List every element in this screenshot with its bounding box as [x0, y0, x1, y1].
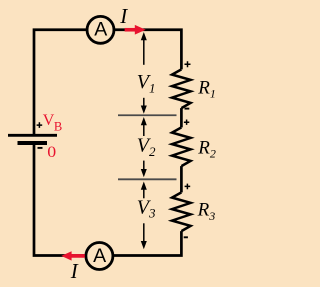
svg-text:A: A	[93, 245, 106, 267]
current arrow I bottom (red, pointing left)	[61, 251, 85, 260]
resistor R1 zigzag	[172, 69, 191, 108]
wire between R2 and R3	[180, 166, 183, 192]
svg-text:I: I	[119, 4, 128, 28]
V2 measurement arrow up	[141, 117, 147, 136]
resistor R3 zigzag	[172, 192, 191, 231]
wire left-bottom: from battery bottom plate down, across bottom to right corner, up to R3	[34, 143, 181, 256]
battery + sign	[37, 122, 43, 128]
wire left+top: from battery top plate up, across to top-right corner	[34, 30, 181, 135]
R3 + sign	[185, 184, 191, 190]
resistor R2 zigzag	[172, 127, 191, 166]
R1 - sign	[185, 108, 190, 110]
ammeter A top	[87, 16, 114, 43]
R3 - sign	[184, 236, 188, 238]
battery VB bottom plate (negative, short thick)	[18, 141, 48, 145]
V1 measurement arrow down	[141, 98, 147, 114]
R1 + sign	[185, 61, 191, 67]
divider line between V1 and V2	[118, 114, 177, 116]
battery - sign	[38, 147, 43, 149]
svg-text:A: A	[94, 19, 107, 41]
V2 measurement arrow down	[141, 161, 147, 178]
svg-text:0: 0	[47, 143, 56, 161]
V3 measurement arrow down	[141, 223, 147, 249]
svg-text:I: I	[70, 259, 79, 283]
ammeter A bottom	[86, 243, 113, 270]
wire between R1 and R2	[180, 108, 183, 127]
current arrow I top (red, pointing right)	[125, 25, 146, 35]
divider line between V2 and V3	[118, 178, 177, 180]
V3 measurement arrow up	[141, 182, 147, 199]
battery VB top plate (positive, long)	[8, 134, 57, 137]
R2 + sign	[184, 120, 189, 125]
V1 measurement arrow up	[141, 32, 147, 65]
